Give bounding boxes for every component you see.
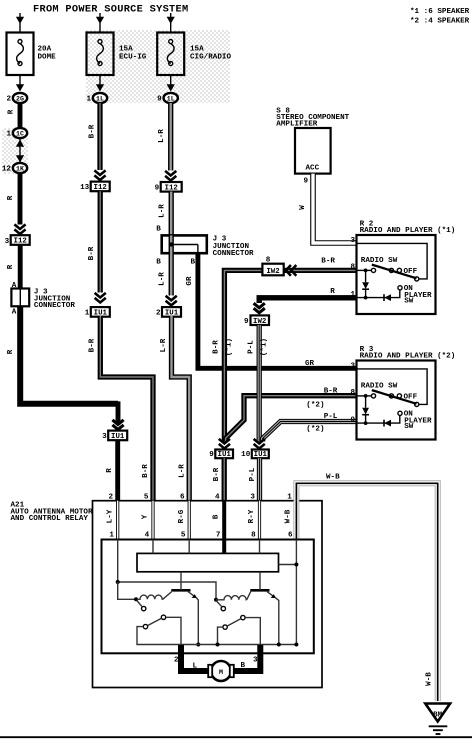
A21 control block [137, 553, 279, 571]
svg-text:W-B: W-B [426, 672, 434, 686]
wire link 1C to 1K with arrows [19, 138, 21, 163]
connector 10 IU1 [252, 450, 269, 459]
svg-text:R: R [7, 195, 15, 200]
R2 internal wiring [357, 243, 428, 279]
svg-text:B-R: B-R [89, 338, 97, 352]
svg-text:1: 1 [350, 291, 355, 299]
svg-text:B: B [156, 259, 161, 267]
svg-text:B-R: B-R [142, 464, 150, 478]
svg-text:B: B [191, 259, 196, 267]
right relay switch [241, 615, 245, 619]
wire from power source into fuse DOME [19, 13, 21, 20]
wire P-L from 10 IU1 to A21 pin 3 [257, 458, 262, 501]
A21 outer box [93, 501, 323, 688]
R3 player switch line [357, 415, 400, 423]
svg-text:B-R: B-R [321, 257, 335, 265]
wire L-R from 2 IU1 to A21 pin 6 [172, 316, 190, 501]
wire fuse CIG/RADIO output [170, 75, 172, 86]
svg-text:(*2): (*2) [306, 426, 324, 434]
page bottom border [0, 736, 472, 738]
R3 diode on player line [384, 420, 391, 427]
svg-text:L-R: L-R [158, 129, 166, 143]
svg-text:1: 1 [109, 532, 114, 540]
svg-text:L-Y: L-Y [107, 509, 115, 523]
connector 1 IU1 [91, 307, 110, 317]
svg-text:RADIO SW: RADIO SW [361, 383, 398, 391]
svg-text:2: 2 [174, 657, 179, 665]
svg-text:ECU-IG: ECU-IG [119, 53, 147, 61]
svg-text:IU1: IU1 [218, 451, 232, 459]
svg-text:(*2): (*2) [306, 401, 324, 409]
svg-text:L-R: L-R [158, 272, 166, 286]
R3 diode to player line [365, 396, 367, 408]
svg-text:R-G: R-G [178, 509, 186, 523]
R2 diode to player line [365, 270, 367, 282]
svg-text:3: 3 [350, 362, 355, 370]
svg-text:L: L [193, 663, 198, 671]
wire L-R from 1L to 9 I12 [168, 103, 173, 171]
A21 internal wire R-G [188, 501, 191, 540]
wire from power source into fuse CIG/RADIO [170, 13, 172, 20]
svg-text:P-L: P-L [249, 467, 257, 481]
svg-text:FROM POWER SOURCE SYSTEM: FROM POWER SOURCE SYSTEM [33, 4, 189, 16]
svg-text:B: B [156, 226, 161, 234]
svg-text:20A: 20A [38, 46, 52, 54]
svg-text:3: 3 [102, 433, 107, 441]
R2 radio switch [357, 269, 372, 271]
connector 9 I12 [161, 182, 182, 192]
right transistor [247, 592, 251, 600]
svg-text:DOME: DOME [38, 53, 57, 61]
svg-text:P-L: P-L [324, 413, 338, 421]
connector 13 I12 [91, 182, 110, 192]
connector 8 IW2 [262, 264, 283, 276]
svg-text:3: 3 [253, 657, 258, 665]
svg-text:SW: SW [404, 297, 414, 305]
svg-text:9: 9 [155, 185, 160, 193]
connector 2 IU1 [162, 307, 181, 317]
svg-text:3: 3 [250, 494, 255, 502]
svg-text:R: R [7, 264, 15, 269]
svg-text:A: A [12, 309, 17, 317]
A21 internal wire W-B [293, 501, 299, 540]
svg-text:B: B [241, 662, 246, 670]
svg-text:*1 :6 SPEAKER: *1 :6 SPEAKER [410, 8, 470, 16]
A21 internal wire L-Y [116, 501, 119, 540]
svg-text:1L: 1L [96, 95, 104, 102]
svg-text:1K: 1K [16, 165, 24, 172]
R3 radio switch [357, 395, 372, 397]
svg-text:I12: I12 [14, 238, 27, 246]
ground symbol BM [425, 704, 450, 722]
svg-text:RADIO SW: RADIO SW [361, 257, 398, 265]
fuse 15A CIG/RADIO [157, 33, 184, 76]
connector 3 IU1 [108, 431, 127, 441]
connector 3 I12 [11, 235, 30, 245]
svg-text:SW: SW [404, 423, 414, 431]
svg-text:L-R: L-R [179, 464, 187, 478]
svg-text:1: 1 [287, 494, 292, 502]
wire B-R from 1 IU1 to A21 pin 5 [100, 316, 153, 501]
svg-text:B: B [213, 514, 221, 519]
svg-text:1C: 1C [16, 130, 24, 137]
wire B-R from 1L to 13 I12 [97, 103, 102, 170]
junction connector J3 (middle) [162, 235, 207, 253]
svg-text:1: 1 [6, 131, 11, 139]
svg-text:5: 5 [181, 532, 186, 540]
svg-text:IU1: IU1 [111, 433, 125, 441]
wire R from 1K to I12 [18, 173, 23, 225]
connector 9 1L [164, 93, 178, 103]
svg-text:R: R [330, 288, 335, 296]
connector 1 1L [93, 93, 107, 103]
wire L-R from 9 I12 to junction J3 [169, 192, 174, 236]
svg-text:OFF: OFF [404, 268, 418, 276]
A21 internal wire B [222, 501, 226, 540]
svg-text:9: 9 [350, 416, 355, 424]
svg-text:1: 1 [86, 96, 91, 104]
connector 12 1K [13, 163, 27, 173]
svg-text:R: R [106, 468, 114, 473]
svg-text:R-Y: R-Y [248, 509, 256, 523]
svg-text:CONNECTOR: CONNECTOR [34, 302, 75, 310]
left relay coil [137, 595, 163, 599]
wire R from 3 IU1 to A21 pin 2 [115, 440, 120, 501]
svg-text:B-R: B-R [213, 340, 221, 354]
svg-text:B-R: B-R [213, 467, 221, 481]
svg-text:1L: 1L [167, 95, 175, 102]
svg-text:P-L: P-L [247, 340, 255, 354]
svg-text:GR: GR [186, 276, 194, 286]
svg-text:AND CONTROL RELAY: AND CONTROL RELAY [11, 515, 89, 523]
svg-text:2: 2 [6, 96, 11, 104]
fuse 20A DOME [7, 33, 34, 76]
svg-text:13: 13 [80, 184, 90, 192]
svg-text:3: 3 [5, 238, 10, 246]
svg-text:B-R: B-R [88, 246, 96, 260]
connector 1 1C [13, 128, 27, 138]
hatched region top [86, 30, 230, 103]
svg-text:7: 7 [216, 532, 221, 540]
wire from power source into fuse ECU-IG [99, 13, 101, 20]
svg-text:W-B: W-B [285, 509, 293, 523]
svg-text:W-B: W-B [326, 473, 340, 481]
R2 player switch line [357, 290, 400, 298]
R3 ON contact [398, 411, 402, 415]
svg-text:Y: Y [142, 514, 150, 519]
svg-text:M: M [219, 669, 223, 676]
svg-text:9: 9 [244, 318, 249, 326]
R3 OFF contact [415, 402, 419, 406]
svg-text:IW2: IW2 [266, 268, 279, 276]
svg-text:8: 8 [266, 257, 271, 265]
svg-text:R: R [8, 109, 16, 114]
wire L-R through J3 to 2 IU1 [169, 235, 174, 295]
R2 ON contact [398, 286, 402, 290]
wire B-R from R2 pin 8 through IW2 down to 9 IU1 [224, 270, 356, 441]
svg-text:L-R: L-R [160, 338, 168, 352]
A21 internal wire R-Y [258, 501, 261, 540]
svg-text:9: 9 [303, 177, 308, 185]
svg-text:*2 :4 SPEAKER: *2 :4 SPEAKER [410, 18, 470, 26]
svg-text:1: 1 [85, 310, 90, 318]
fuse 15A ECU-IG [87, 33, 114, 76]
svg-text:GR: GR [305, 360, 315, 368]
svg-text:4: 4 [145, 532, 150, 540]
left relay switch [161, 615, 165, 619]
svg-text:15A: 15A [190, 46, 204, 54]
A21 internal wire Y [151, 501, 154, 540]
wire fuse ECU-IG output [99, 75, 101, 86]
wire B-R from 9 IU1 to A21 pin 4 [222, 458, 227, 501]
svg-text:CONNECTOR: CONNECTOR [213, 250, 254, 258]
wire R from J3 down and right to 3 IU1 [20, 306, 118, 423]
svg-text:B-R: B-R [89, 124, 97, 138]
svg-text:CIG/RADIO: CIG/RADIO [190, 53, 231, 61]
svg-text:IU1: IU1 [254, 451, 268, 459]
svg-text:8: 8 [350, 264, 355, 272]
svg-text:IW2: IW2 [253, 318, 266, 326]
ground rail from pin 6 [295, 540, 297, 645]
feeders into control block [152, 540, 154, 554]
svg-text:15A: 15A [119, 46, 133, 54]
supply rail from pin 1 [118, 540, 216, 600]
svg-text:4: 4 [215, 494, 220, 502]
svg-text:10: 10 [241, 451, 251, 459]
svg-text:5: 5 [144, 494, 149, 502]
wire GR from J3 to R3 pin 3 [198, 253, 357, 368]
right relay coil [216, 596, 247, 600]
svg-text:R: R [7, 349, 15, 354]
R3 internal wiring [357, 369, 428, 405]
svg-text:9: 9 [209, 451, 214, 459]
svg-text:6: 6 [180, 494, 185, 502]
wire R from I12 to J3 [18, 245, 23, 289]
connector 9 IU1 [215, 450, 233, 459]
svg-text:I12: I12 [94, 184, 107, 192]
svg-text:B-R: B-R [324, 388, 338, 396]
motor M with leads [181, 645, 210, 671]
svg-text:W: W [299, 205, 307, 210]
R2 diode on player line [384, 294, 391, 301]
wire B-R from I12 to 1 IU1 [98, 191, 103, 292]
svg-text:I12: I12 [165, 185, 178, 193]
wire P-L from 9 IW2 down to 10 IU1 [257, 325, 262, 442]
svg-text:2: 2 [109, 494, 114, 502]
svg-text:8: 8 [251, 532, 256, 540]
svg-text:L-R: L-R [158, 204, 166, 218]
junction connector J3 (left) [11, 289, 29, 307]
wire fuse DOME output [19, 75, 21, 86]
svg-text:BM: BM [433, 712, 443, 720]
svg-text:(*1): (*1) [226, 338, 234, 356]
left transistor [163, 592, 172, 600]
hatched region left [2, 128, 28, 174]
junction dot inside J3 [169, 242, 173, 246]
svg-text:6: 6 [288, 532, 293, 540]
A21 inner unit box [102, 540, 314, 654]
svg-text:8: 8 [350, 389, 355, 397]
svg-text:OFF: OFF [404, 393, 418, 401]
wire R from R2 pin 1 to 9 IW2 [259, 298, 356, 303]
wire W-B from A21 pin 1 to body ground [296, 483, 437, 701]
connector 9 IW2 [251, 315, 270, 325]
connector 2 2G [13, 93, 27, 103]
svg-text:9: 9 [157, 96, 162, 104]
svg-text:2: 2 [156, 310, 161, 318]
wire W from S8 pin 9 to R2 pin 3 [313, 174, 357, 243]
R2 OFF contact [415, 277, 419, 281]
svg-text:ACC: ACC [306, 165, 320, 173]
svg-text:12: 12 [2, 166, 12, 174]
svg-text:(*1): (*1) [261, 338, 269, 356]
wire R from 2G to 1C [18, 103, 23, 128]
svg-text:3: 3 [350, 237, 355, 245]
svg-text:2G: 2G [16, 95, 24, 102]
